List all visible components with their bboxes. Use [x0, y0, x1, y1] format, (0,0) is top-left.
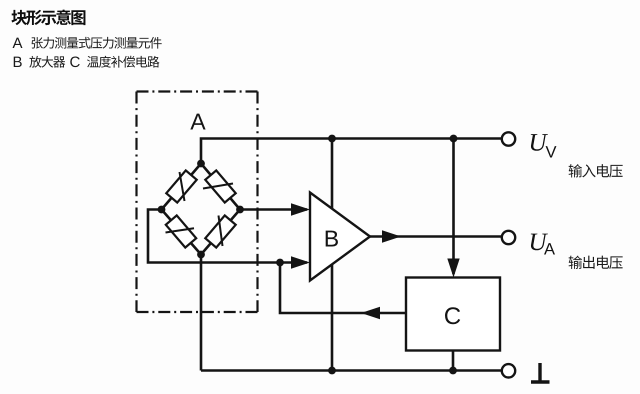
label UV input voltage [531, 134, 557, 157]
resistor R1 (strain gauge) [166, 170, 196, 202]
bridge diamond wires [162, 164, 241, 255]
wire amplifier output to UA terminal [370, 235, 501, 238]
wire bridge bottom node to ground rail [200, 255, 203, 371]
legend item B 放大器 C 温度补偿电路 [14, 56, 160, 68]
label 输出电压 (output voltage) [569, 256, 623, 269]
arrowhead into amplifier lower input [291, 256, 310, 268]
junction dot ground rail at C leg [449, 367, 457, 375]
wire top rail to UV terminal [201, 139, 501, 164]
wire block C to ground rail [452, 351, 455, 371]
op-amp B amplifier triangle [310, 193, 370, 281]
arrowhead into block C top [447, 259, 459, 278]
wire bottom ground rail [201, 369, 502, 372]
dash-dot enclosure around bridge A [137, 92, 258, 313]
resistor R3 (strain gauge) [166, 215, 197, 247]
wire bridge right node to amplifier upper input [240, 208, 307, 211]
junction dot top rail at C feed [450, 135, 458, 143]
junction dot bridge right node [236, 206, 244, 214]
arrowhead on C return line [361, 307, 380, 319]
wire vertical feed to block C [452, 139, 455, 275]
arrowhead on amplifier output [382, 230, 401, 242]
terminal circle ground [502, 364, 515, 377]
junction dot top rail at supply line [328, 135, 336, 143]
title text 块形示意图 [11, 9, 85, 25]
junction dot bridge left node [158, 206, 166, 214]
wire bridge left node to amplifier lower input [148, 210, 307, 263]
resistor R2 (strain gauge) [203, 170, 236, 202]
label A [190, 114, 205, 130]
legend item A 张力测量式压力测量元件 [13, 37, 162, 49]
junction dot lower input at C return [276, 259, 284, 267]
junction dot ground rail at supply line [328, 367, 336, 375]
resistor R4 (strain gauge) [205, 215, 235, 247]
terminal circle UV [502, 132, 515, 145]
label 输入电压 (input voltage) [569, 164, 623, 177]
junction dot bridge top node [197, 160, 205, 168]
wire supply vertical through amplifier [331, 139, 334, 371]
terminal circle UA [502, 231, 515, 244]
block C temperature compensation [406, 278, 500, 351]
arrowhead into amplifier upper input [291, 203, 310, 215]
ground symbol [531, 363, 550, 382]
wire block C return to amplifier input junction [280, 263, 406, 314]
label UA output voltage [531, 234, 555, 255]
junction dot bridge bottom node [197, 251, 205, 259]
